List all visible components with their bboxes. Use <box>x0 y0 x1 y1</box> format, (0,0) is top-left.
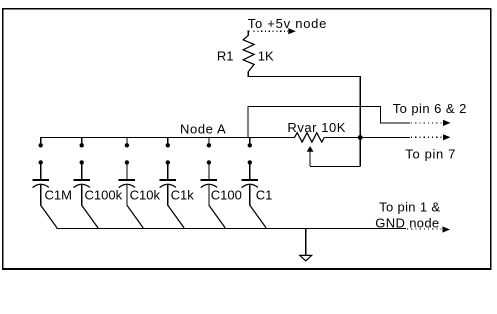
svg-text:To +5v node: To +5v node <box>248 16 327 31</box>
svg-text:R1: R1 <box>217 49 234 64</box>
svg-text:Node A: Node A <box>180 121 226 136</box>
svg-text:To pin 1 &: To pin 1 & <box>379 199 440 214</box>
svg-text:C1: C1 <box>256 187 273 202</box>
svg-text:GND node: GND node <box>375 215 439 230</box>
svg-text:To pin 6 & 2: To pin 6 & 2 <box>393 101 467 116</box>
svg-text:To pin 7: To pin 7 <box>405 147 456 162</box>
svg-text:1K: 1K <box>258 49 274 64</box>
svg-text:C1k: C1k <box>171 187 195 202</box>
svg-text:C10k: C10k <box>130 187 161 202</box>
svg-text:C100k: C100k <box>85 187 123 202</box>
svg-text:C1M: C1M <box>45 187 72 202</box>
svg-text:Rvar 10K: Rvar 10K <box>287 120 346 135</box>
svg-text:C100: C100 <box>211 187 242 202</box>
